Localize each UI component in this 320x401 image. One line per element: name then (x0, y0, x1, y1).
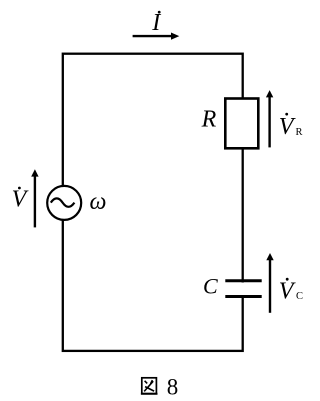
svg-text:R: R (201, 107, 217, 133)
arrow: source voltage V-dot polarity (up) (31, 169, 38, 227)
AC voltage source V (circle with sine symbol) (47, 186, 81, 220)
label I-dot (current phasor) (151, 10, 161, 36)
arrow: capacitor voltage VC-dot polarity (up) (266, 253, 273, 313)
svg-text:C: C (296, 291, 303, 302)
wire loop: top, right, bottom, left segments of series circuit (63, 54, 243, 351)
svg-text:V: V (279, 279, 296, 305)
svg-text:V: V (12, 186, 29, 212)
svg-text:R: R (296, 127, 303, 138)
label VR-dot (resistor voltage phasor) (279, 113, 303, 140)
label VC-dot (capacitor voltage phasor) (279, 278, 303, 305)
svg-text:V: V (279, 114, 296, 140)
svg-text:8: 8 (167, 375, 179, 400)
arrow: current I-dot direction (right) (133, 33, 180, 40)
arrow: resistor voltage VR-dot polarity (up) (266, 90, 273, 147)
caption kanji ZU "figure" (drawn strokes) (141, 378, 158, 394)
resistor R (box symbol) (225, 99, 258, 149)
svg-text:I: I (151, 10, 161, 36)
capacitor C (parallel plates symbol) (225, 281, 261, 297)
svg-text:ω: ω (90, 189, 107, 215)
svg-text:C: C (203, 273, 218, 298)
label V-dot (source voltage phasor) (12, 186, 29, 212)
